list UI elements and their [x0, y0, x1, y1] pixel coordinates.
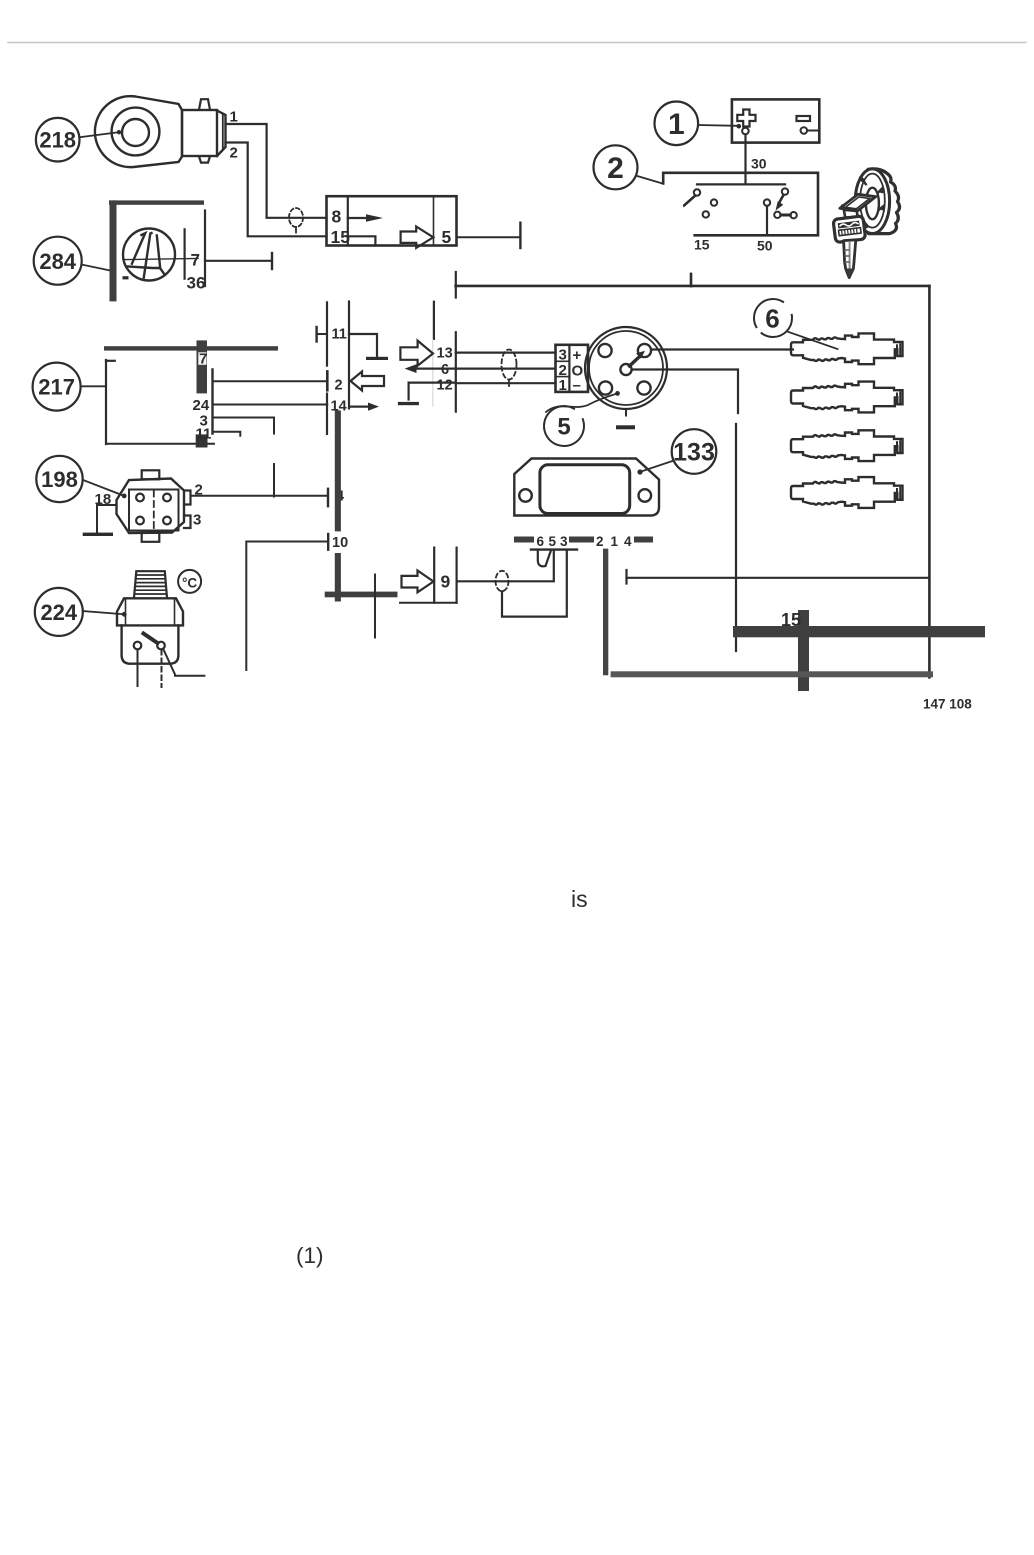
svg-text:15: 15: [781, 610, 801, 630]
thick harness bar bottom left: [603, 549, 608, 676]
callout circle 133: [672, 429, 717, 474]
lock bezel face: [855, 169, 889, 234]
top rule: [8, 42, 1026, 44]
svg-text:4: 4: [624, 534, 632, 549]
svg-text:–: –: [573, 377, 581, 394]
wire 217 pin24 to connector pin14: [214, 404, 328, 406]
svg-text:+: +: [573, 347, 582, 364]
twisted pair splice symbol: [502, 350, 517, 387]
svg-text:3: 3: [193, 512, 201, 529]
distributor 5: [585, 327, 667, 416]
svg-text:11: 11: [332, 326, 347, 342]
callout circle 224: [35, 588, 83, 636]
svg-text:3: 3: [559, 347, 567, 364]
svg-text:7: 7: [191, 251, 200, 270]
leader line 224: [83, 611, 127, 617]
terminal 15 thick bus: [733, 610, 985, 691]
svg-text:218: 218: [39, 128, 76, 153]
wire tachometer output: [205, 253, 272, 269]
leader line 198: [83, 480, 127, 498]
svg-text:13: 13: [437, 346, 453, 362]
svg-text:147 108: 147 108: [923, 697, 972, 712]
battery 1: [732, 99, 819, 142]
svg-text:50: 50: [757, 238, 773, 254]
open arrow into 9: [402, 571, 434, 593]
ignition module 133 plate: [514, 459, 659, 516]
callout circle 284: [34, 237, 82, 285]
relay connector 8 15 5: [327, 196, 457, 245]
svg-text:1: 1: [611, 534, 619, 549]
leader line 218: [79, 130, 121, 137]
module connector pin numbers: [537, 534, 633, 549]
wire from relay 5: [457, 223, 521, 248]
svg-text:°C: °C: [182, 576, 197, 591]
relay pin 8: [332, 207, 384, 227]
lock knob body with wavy edge: [861, 169, 900, 234]
ignition coil 218: [95, 96, 226, 167]
instrument panel 217: [104, 340, 278, 447]
leader line 284: [82, 265, 112, 271]
arrow out of pin6: [405, 364, 456, 373]
wires to distributor connector: [456, 353, 556, 384]
svg-text:7: 7: [199, 351, 207, 368]
svg-text:12: 12: [437, 378, 453, 394]
wires from temperature switch: [138, 650, 205, 688]
svg-text:224: 224: [40, 600, 77, 625]
leader line 2: [637, 176, 662, 184]
wire 217 pin7 to connector pin2: [214, 380, 328, 382]
wire coil pin1 to relay pin8: [226, 124, 327, 218]
svg-text:24: 24: [193, 397, 210, 414]
svg-text:36: 36: [187, 274, 206, 293]
central connector left labels: [331, 326, 347, 414]
wire distributor output to spark plug: [651, 348, 793, 350]
distributor connector block 3 2 1: [556, 345, 589, 392]
open arrow into pin13: [400, 341, 433, 366]
idle valve connector 198: [117, 470, 191, 542]
splice symbol on wire 9: [496, 571, 509, 591]
svg-text:30: 30: [751, 156, 767, 172]
svg-text:1: 1: [559, 377, 567, 394]
spark plug 1: [791, 333, 903, 364]
leader line 133: [637, 461, 673, 475]
svg-text:6: 6: [441, 362, 449, 378]
svg-text:2: 2: [230, 145, 238, 162]
pin 10 terminal: [328, 534, 348, 551]
wire battery to switch terminal 30: [744, 135, 746, 185]
tachometer 284 frame: [109, 200, 205, 301]
svg-text:10: 10: [332, 535, 348, 551]
svg-text:(1): (1): [296, 1243, 324, 1268]
leader line 217: [81, 385, 107, 387]
leader line 6: [787, 332, 838, 350]
svg-text:9: 9: [441, 572, 451, 592]
wire 9 to module pin5: [457, 551, 554, 582]
wire across bottom: [627, 570, 930, 584]
gray harness line bottom: [611, 671, 933, 677]
callout circle 1: [655, 102, 699, 146]
key head: [833, 216, 866, 243]
degC symbol: [178, 570, 201, 593]
central connector right labels: [437, 346, 453, 394]
spark plug 2: [791, 382, 903, 413]
relay pin 15: [331, 227, 376, 247]
temperature switch 224: [117, 571, 183, 664]
arrow out of pin14: [350, 403, 380, 411]
svg-text:11: 11: [196, 425, 212, 442]
svg-text:1: 1: [668, 108, 685, 141]
wire 217 pin3: [214, 418, 275, 497]
tachometer terminal 7: [185, 229, 206, 292]
svg-text:198: 198: [41, 467, 78, 492]
relay output arrow 5: [401, 227, 452, 248]
svg-text:2: 2: [607, 152, 624, 185]
wire coil pin2 to relay pin15: [226, 143, 327, 237]
tachometer 284 gauge: [123, 229, 199, 281]
harness junction cross left: [325, 575, 398, 638]
svg-text:2: 2: [596, 534, 604, 549]
spark plug 3: [791, 430, 903, 461]
module connector body: [531, 550, 577, 567]
svg-text:6: 6: [537, 534, 545, 549]
callout circle 217: [33, 363, 81, 411]
svg-text:5: 5: [549, 534, 557, 549]
svg-text:8: 8: [332, 207, 342, 227]
svg-text:6: 6: [765, 304, 779, 334]
minus mark under distributor: [616, 425, 635, 429]
svg-text:15: 15: [694, 237, 710, 253]
thick harness bar below pin14: [335, 410, 341, 601]
wire 217 pin11: [214, 432, 241, 436]
central connector right half pins 13 6 12: [433, 272, 456, 412]
connector 9: [400, 548, 457, 603]
bus wire from switch: [456, 274, 930, 677]
key grip plate: [840, 194, 876, 211]
callout circle 198: [36, 456, 82, 502]
spark plug 4: [791, 477, 903, 508]
svg-text:5: 5: [442, 227, 452, 247]
branch wire to module pin3: [502, 551, 567, 617]
callout circle 5: [544, 406, 584, 446]
white patch over callout 2: [586, 191, 683, 271]
callout circle 2: [594, 145, 638, 189]
key and lock illustration: [833, 169, 900, 278]
open arrow into pin2: [351, 372, 385, 391]
bezel inner rings: [860, 174, 885, 228]
svg-text:is: is: [571, 886, 588, 912]
callout circle 6: [754, 299, 792, 337]
wire 198 pin2 to connector pin4: [191, 489, 329, 506]
leader line 1: [698, 124, 741, 129]
svg-text:284: 284: [39, 249, 76, 274]
wire pin11 to ground: [349, 334, 388, 360]
splice symbol on coil wire: [289, 208, 303, 233]
svg-text:217: 217: [38, 375, 75, 400]
switch terminal labels 15 50: [694, 237, 773, 254]
svg-text:2: 2: [335, 377, 343, 393]
svg-text:5: 5: [557, 414, 570, 441]
wire into pin 10: [246, 542, 328, 671]
wire pin12 to ground: [398, 383, 456, 406]
leader line 5: [546, 391, 620, 412]
callout circle 218: [36, 118, 80, 162]
ignition switch 2: [663, 173, 818, 236]
block labels 3 2 1 + O -: [559, 347, 584, 395]
svg-text:133: 133: [673, 439, 715, 467]
central connector left half pins 11 2 14: [317, 302, 350, 434]
ground from 198 pin18: [83, 505, 117, 536]
module connector row bars: [514, 537, 653, 543]
key neck: [844, 210, 858, 219]
key blade: [844, 240, 856, 278]
svg-text:3: 3: [560, 534, 568, 549]
198 pin labels: [95, 481, 203, 528]
wire distributor center to module bus: [632, 370, 738, 652]
bezel spoke marks: [861, 177, 883, 227]
